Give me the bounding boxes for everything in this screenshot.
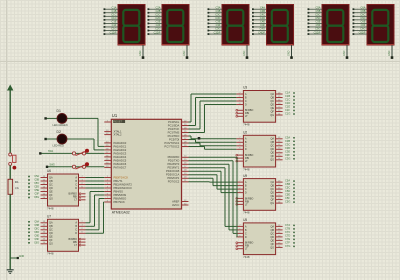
svg-text:LT: LT	[245, 248, 248, 251]
svg-text:PA5/ADC5: PA5/ADC5	[114, 158, 127, 162]
svg-text:D: D	[245, 192, 247, 195]
svg-text:D: D	[75, 187, 77, 190]
svg-text:C5G: C5G	[285, 200, 290, 204]
svg-text:QG: QG	[270, 202, 274, 205]
svg-text:U6: U6	[47, 169, 51, 173]
svg-text:D: D	[245, 236, 247, 239]
svg-text:C5F: C5F	[316, 23, 321, 27]
svg-text:C1DP: C1DP	[110, 30, 117, 34]
svg-text:C6E: C6E	[360, 20, 365, 24]
svg-text:C6C: C6C	[360, 13, 365, 17]
svg-text:C3F: C3F	[285, 153, 290, 157]
svg-text:C3C: C3C	[215, 13, 220, 17]
svg-text:D: D	[75, 232, 77, 235]
svg-text:C7G: C7G	[285, 244, 290, 248]
svg-text:PC7/TOSC2: PC7/TOSC2	[164, 144, 179, 148]
svg-text:PB6/MISO: PB6/MISO	[114, 196, 127, 200]
svg-text:U1: U1	[112, 113, 118, 118]
svg-text:U5: U5	[243, 218, 247, 222]
svg-text:U3: U3	[243, 86, 247, 90]
svg-text:7448: 7448	[47, 206, 54, 210]
svg-text:C7D: C7D	[285, 233, 290, 237]
svg-text:C4C: C4C	[260, 13, 265, 17]
svg-text:LT: LT	[74, 244, 77, 247]
svg-text:PA3/ADC3: PA3/ADC3	[114, 151, 127, 155]
svg-text:C2B: C2B	[155, 9, 160, 13]
svg-text:D2: D2	[57, 130, 61, 134]
svg-text:QG: QG	[49, 243, 53, 246]
svg-text:PC3/TMS: PC3/TMS	[168, 130, 180, 134]
svg-text:GND: GND	[19, 255, 25, 258]
svg-text:PA0/ADC0: PA0/ADC0	[114, 141, 127, 145]
svg-text:D: D	[245, 148, 247, 151]
svg-text:C1A: C1A	[285, 91, 290, 95]
svg-text:C4D: C4D	[260, 16, 265, 20]
svg-text:7448: 7448	[243, 167, 250, 171]
svg-text:C6B: C6B	[360, 9, 365, 13]
svg-text:LT: LT	[74, 199, 77, 202]
svg-text:PA6/ADC6: PA6/ADC6	[114, 162, 127, 166]
svg-text:LED-RED: LED-RED	[53, 144, 65, 148]
svg-text:C1E: C1E	[285, 105, 290, 109]
svg-text:C1B: C1B	[285, 94, 290, 98]
svg-text:PB1/T1: PB1/T1	[114, 179, 123, 183]
svg-text:PD0/RXD: PD0/RXD	[168, 155, 180, 159]
svg-text:PA2/ADC2: PA2/ADC2	[114, 148, 127, 152]
svg-text:C3B: C3B	[285, 139, 290, 143]
svg-text:C5G: C5G	[315, 27, 320, 31]
svg-text:C3F: C3F	[216, 23, 221, 27]
svg-text:C3D: C3D	[285, 146, 290, 150]
svg-text:7448: 7448	[47, 252, 54, 256]
svg-text:10k: 10k	[15, 186, 20, 190]
svg-text:PB3/AIN1/OC0: PB3/AIN1/OC0	[114, 186, 133, 190]
svg-text:QG: QG	[270, 246, 274, 249]
svg-text:PD3/INT1: PD3/INT1	[167, 166, 179, 170]
svg-text:PA4/ADC4: PA4/ADC4	[114, 155, 127, 159]
svg-text:C2E: C2E	[155, 20, 160, 24]
svg-text:C4DP: C4DP	[258, 30, 265, 34]
svg-text:PD6/ICP1: PD6/ICP1	[167, 176, 179, 180]
svg-text:C1E: C1E	[111, 20, 116, 24]
svg-text:GND: GND	[139, 50, 142, 56]
svg-text:C6D: C6D	[360, 16, 365, 20]
svg-text:GND: GND	[288, 50, 291, 56]
svg-text:PB0/T0/XCK: PB0/T0/XCK	[114, 175, 129, 179]
svg-text:PC1/SDA: PC1/SDA	[168, 123, 180, 127]
svg-text:U2: U2	[243, 131, 247, 135]
svg-text:C1A: C1A	[111, 5, 116, 9]
svg-text:C3E: C3E	[285, 149, 290, 153]
svg-text:PD1/TXD: PD1/TXD	[168, 159, 179, 163]
svg-text:C1F: C1F	[285, 108, 290, 112]
svg-text:LT: LT	[245, 203, 248, 206]
svg-text:7448: 7448	[243, 211, 250, 215]
svg-text:C6G: C6G	[360, 27, 365, 31]
svg-text:C4A: C4A	[260, 5, 265, 9]
svg-text:SW1: SW1	[48, 150, 54, 153]
svg-text:LT: LT	[245, 160, 248, 163]
svg-text:PD5/OC1A: PD5/OC1A	[166, 173, 180, 177]
svg-text:C5F: C5F	[285, 196, 290, 200]
svg-text:AREF: AREF	[172, 199, 180, 203]
svg-text:C3G: C3G	[215, 27, 220, 31]
svg-text:C1D: C1D	[111, 16, 116, 20]
svg-text:C3DP: C3DP	[214, 30, 221, 34]
svg-text:PB5/MOSI: PB5/MOSI	[114, 193, 127, 197]
svg-text:XTAL2: XTAL2	[114, 133, 123, 137]
svg-text:C4E: C4E	[260, 20, 265, 24]
svg-text:C7E: C7E	[285, 237, 290, 241]
svg-text:PD2/INT0: PD2/INT0	[167, 162, 179, 166]
svg-text:C6A: C6A	[360, 5, 365, 9]
svg-text:C5D: C5D	[285, 189, 290, 193]
svg-text:LED-GREEN: LED-GREEN	[53, 123, 68, 127]
svg-text:R1: R1	[15, 180, 19, 184]
svg-text:C1D: C1D	[285, 101, 290, 105]
svg-text:GND: GND	[183, 50, 186, 56]
svg-text:C7B: C7B	[285, 226, 290, 230]
svg-text:PD7/OC2: PD7/OC2	[168, 180, 180, 184]
svg-text:C2A: C2A	[155, 5, 160, 9]
svg-text:C7A: C7A	[285, 223, 290, 227]
svg-text:PA1/ADC1: PA1/ADC1	[114, 144, 127, 148]
svg-text:PC2/TCK: PC2/TCK	[168, 127, 180, 131]
svg-text:C3D: C3D	[215, 16, 220, 20]
svg-text:C2DP: C2DP	[154, 30, 161, 34]
svg-text:C1B: C1B	[111, 9, 116, 13]
svg-text:C1C: C1C	[111, 13, 116, 17]
svg-text:C3A: C3A	[215, 5, 220, 9]
svg-text:C5E: C5E	[285, 193, 290, 197]
svg-text:SW2: SW2	[50, 164, 56, 167]
svg-text:C4B: C4B	[260, 9, 265, 13]
svg-text:AVCC: AVCC	[172, 203, 179, 207]
svg-text:D: D	[245, 103, 247, 106]
svg-text:C2F: C2F	[156, 23, 161, 27]
svg-text:PB4/SS: PB4/SS	[114, 189, 124, 193]
svg-text:C1C: C1C	[285, 98, 290, 102]
svg-text:U9: U9	[243, 174, 247, 178]
svg-text:C5E: C5E	[315, 20, 320, 24]
svg-text:C1G: C1G	[111, 27, 116, 31]
svg-text:PB7/SCK: PB7/SCK	[114, 200, 126, 204]
svg-text:C4F: C4F	[260, 23, 265, 27]
svg-text:C1G: C1G	[285, 112, 290, 116]
svg-text:QG: QG	[49, 197, 53, 200]
svg-text:PD4/OC1B: PD4/OC1B	[166, 169, 180, 173]
svg-text:C5B: C5B	[315, 9, 320, 13]
svg-text:LT: LT	[245, 115, 248, 118]
svg-text:C5DP: C5DP	[314, 30, 321, 34]
svg-text:7448: 7448	[243, 123, 250, 127]
svg-text:C5C: C5C	[285, 186, 290, 190]
svg-text:C3B: C3B	[215, 9, 220, 13]
svg-text:C3A: C3A	[285, 135, 290, 139]
svg-text:7448: 7448	[243, 255, 250, 259]
svg-text:QG: QG	[270, 114, 274, 117]
svg-text:C2D: C2D	[155, 16, 160, 20]
svg-text:RESET: RESET	[114, 120, 123, 124]
svg-text:C5A: C5A	[285, 179, 290, 183]
svg-text:PC5/TDI: PC5/TDI	[169, 137, 180, 141]
svg-text:PB2/AIN0/INT2: PB2/AIN0/INT2	[114, 182, 133, 186]
svg-text:C5G: C5G	[34, 196, 39, 199]
svg-text:U7: U7	[47, 215, 51, 219]
svg-text:GND: GND	[243, 50, 246, 56]
svg-text:C5B: C5B	[285, 182, 290, 186]
svg-text:C6DP: C6DP	[359, 30, 366, 34]
svg-text:C3G: C3G	[285, 156, 290, 160]
svg-text:C5D: C5D	[315, 16, 320, 20]
svg-text:C2G: C2G	[155, 27, 160, 31]
svg-text:C4G: C4G	[260, 27, 265, 31]
svg-text:PA7/ADC7: PA7/ADC7	[114, 165, 127, 169]
svg-text:D1: D1	[57, 109, 61, 113]
svg-text:QG: QG	[270, 159, 274, 162]
svg-text:PC4/TDO: PC4/TDO	[168, 134, 180, 138]
svg-text:C7C: C7C	[285, 230, 290, 234]
svg-text:C2C: C2C	[155, 13, 160, 17]
svg-text:C6F: C6F	[361, 23, 366, 27]
svg-text:C3C: C3C	[285, 142, 290, 146]
svg-text:PC0/SCL: PC0/SCL	[168, 120, 180, 124]
svg-text:PC6/TOSC1: PC6/TOSC1	[164, 141, 179, 145]
svg-text:ATMEGA32: ATMEGA32	[112, 211, 130, 215]
svg-text:C1F: C1F	[112, 23, 117, 27]
svg-text:C7F: C7F	[285, 240, 290, 244]
svg-text:GND: GND	[343, 50, 346, 56]
svg-text:C5C: C5C	[315, 13, 320, 17]
svg-text:C6G: C6G	[34, 241, 39, 244]
svg-text:GND: GND	[388, 50, 391, 56]
svg-text:C3E: C3E	[215, 20, 220, 24]
svg-text:C5A: C5A	[315, 5, 320, 9]
